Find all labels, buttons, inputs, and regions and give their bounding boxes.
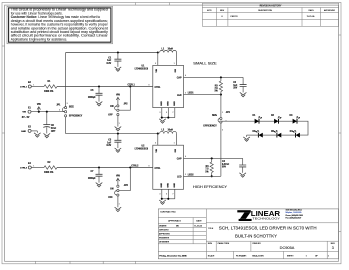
svg-text:ENGINEER: ENGINEER	[159, 238, 170, 240]
wire E1 to JP1	[31, 111, 64, 113]
capacitor C3 1uF 6.3V	[117, 134, 119, 141]
LED D5	[277, 133, 281, 138]
svg-text:EFFICIENCY: EFFICIENCY	[69, 116, 83, 118]
Linear Technology logo mark	[237, 210, 251, 212]
svg-text:CHECKED: CHECKED	[159, 229, 169, 231]
svg-text:CONTRACT NO.: CONTRACT NO.	[160, 211, 176, 214]
ground U1	[159, 119, 166, 123]
capacitor C2 1uF 25V	[242, 77, 244, 84]
ground JP2	[115, 127, 122, 131]
ground C7	[96, 183, 103, 187]
svg-text:VIN: VIN	[156, 149, 158, 153]
node JP2 common to CTRL1	[129, 85, 131, 87]
wire LED1 to JP4	[220, 95, 222, 118]
svg-text:GND: GND	[174, 182, 176, 187]
svg-text:LED: LED	[177, 95, 182, 97]
svg-text:PROTO: PROTO	[231, 16, 239, 18]
svg-text:LT3491ESC8: LT3491ESC8	[135, 147, 149, 150]
wire U2 CAP pin	[184, 157, 243, 159]
node R3 top	[220, 76, 222, 78]
ground C5	[96, 102, 103, 106]
svg-text:VIN: VIN	[37, 104, 41, 106]
resistor R4 7.5 1%	[211, 158, 213, 162]
node C1	[117, 51, 119, 53]
svg-text:1uF: 1uF	[233, 85, 238, 87]
svg-text:5: 5	[67, 103, 68, 105]
ground C2	[240, 92, 247, 96]
svg-text:VIN: VIN	[116, 94, 120, 96]
svg-text:3: 3	[222, 130, 223, 132]
capacitor C7 1000pF	[98, 168, 100, 175]
svg-text:CTRL1: CTRL1	[20, 87, 28, 89]
node L1	[157, 51, 159, 53]
svg-text:1: 1	[119, 204, 120, 206]
node C5/CTRL1	[98, 85, 100, 87]
svg-text:8: 8	[149, 84, 150, 86]
svg-text:CTRL2: CTRL2	[20, 168, 28, 170]
terminal E1 VIN	[28, 110, 31, 113]
node R4 bottom	[211, 175, 213, 177]
svg-text:DWG NO: DWG NO	[253, 243, 262, 245]
svg-text:2: 2	[185, 92, 186, 94]
wire L2 to U2 VIN pin	[157, 134, 159, 146]
wire U1 CAP pin	[184, 76, 244, 78]
wire JP3 common loop	[119, 168, 130, 191]
capacitor C5 1000pF	[98, 87, 100, 94]
wire D4-D5	[281, 134, 295, 136]
svg-text:DESIGNER: DESIGNER	[159, 242, 170, 244]
svg-text:GND: GND	[174, 101, 176, 106]
node JP3 common to CTRL2	[129, 166, 131, 168]
svg-text:CAGE CODE: CAGE CODE	[218, 242, 230, 245]
wire JP1 EFFICIENCY to rail2	[65, 117, 67, 134]
jumper JP2 ON/OFF	[117, 105, 119, 107]
svg-text:LED2: LED2	[188, 174, 195, 176]
inductor L1 10uH	[160, 50, 177, 52]
svg-text:SHEET: SHEET	[287, 256, 294, 258]
svg-text:CTRL1: CTRL1	[128, 84, 136, 86]
svg-text:10uH: 10uH	[168, 48, 174, 50]
U1 GND pins to ground	[161, 108, 163, 118]
op IC U1 LT3491ESC8 box	[153, 65, 184, 107]
LED D6	[258, 133, 262, 138]
svg-text:SW: SW	[175, 149, 177, 152]
svg-text:GND: GND	[167, 101, 169, 106]
svg-text:Applications Engineering for a: Applications Engineering for assistance.	[11, 37, 68, 41]
ground E2	[34, 133, 41, 137]
svg-text:EFFICIENCY: EFFICIENCY	[203, 125, 217, 127]
wire JP3 OFF to ground	[117, 196, 119, 207]
inductor L2 10uH	[160, 131, 177, 133]
svg-text:DATE: DATE	[196, 220, 202, 223]
jumper JP1 VIN select	[65, 107, 67, 109]
svg-text:1uF: 1uF	[107, 142, 112, 144]
svg-text:3: 3	[160, 112, 161, 114]
capacitor C1 1uF 6.3V	[117, 53, 119, 60]
node C3	[117, 133, 119, 135]
svg-text:1%: 1%	[205, 171, 208, 173]
svg-text:1: 1	[33, 84, 34, 86]
svg-text:SW: SW	[175, 69, 177, 72]
svg-text:0.47uF: 0.47uF	[222, 163, 230, 166]
svg-text:TECHNOLOGY: TECHNOLOGY	[252, 217, 280, 221]
svg-text:11-21-05: 11-21-05	[194, 225, 202, 227]
node C6	[46, 111, 48, 113]
svg-text:1%: 1%	[214, 91, 217, 93]
LED D1	[255, 119, 259, 124]
svg-text:DRAWN: DRAWN	[159, 224, 167, 227]
wire E3 to R1	[31, 86, 44, 88]
svg-text:100K 1%: 100K 1%	[44, 172, 53, 174]
svg-text:1uF: 1uF	[107, 60, 112, 62]
terminal E3 CTRL1	[28, 85, 31, 88]
svg-text:6: 6	[166, 112, 167, 114]
wire U1 LED pin	[184, 94, 221, 96]
resistor R1	[44, 85, 57, 89]
op IC U2 LT3491ESC8 box	[153, 145, 184, 189]
svg-text:DATE: DATE	[309, 9, 315, 12]
svg-text:CTRL2: CTRL2	[131, 165, 139, 167]
svg-text:3: 3	[332, 246, 334, 250]
node R4 top	[211, 157, 213, 159]
wire VIN rail2	[66, 133, 158, 135]
svg-text:OPT: OPT	[51, 131, 56, 133]
svg-text:CAP: CAP	[177, 77, 182, 80]
jumper JP3 ON/OFF	[117, 185, 119, 187]
svg-text:1000pF: 1000pF	[88, 178, 96, 180]
svg-text:50V: 50V	[222, 167, 227, 169]
wire D5-D6	[263, 134, 277, 136]
wire D3 to right corner	[297, 121, 308, 135]
svg-text:APPROVED: APPROVED	[324, 9, 336, 12]
svg-text:3: 3	[160, 193, 161, 195]
ground C1	[115, 67, 122, 71]
svg-text:1: 1	[174, 143, 175, 145]
node C7/CTRL2	[98, 166, 100, 168]
svg-text:APPROVED: APPROVED	[159, 233, 170, 236]
wire JP2 common loop	[119, 87, 130, 111]
svg-text:CTRL: CTRL	[155, 87, 162, 89]
svg-text:DESCRIPTION: DESCRIPTION	[258, 10, 272, 12]
wire E4 to R2	[31, 167, 44, 169]
svg-text:TITLE: TITLE	[208, 228, 214, 230]
svg-text:11-21-05: 11-21-05	[307, 16, 316, 18]
ground C4	[239, 173, 246, 177]
svg-text:6: 6	[166, 193, 167, 195]
wire U2 LED pin	[184, 175, 221, 177]
ground LED string	[243, 137, 250, 141]
wire JP2 OFF to ground	[117, 116, 119, 127]
wire JP4 EFFICIENCY to LED2	[220, 123, 222, 176]
node R3 bottom	[220, 94, 222, 96]
terminal E4 CTRL2	[28, 166, 31, 169]
svg-text:47uF: 47uF	[51, 127, 57, 130]
svg-text:7: 7	[173, 193, 174, 195]
wire E2 to ground	[31, 130, 37, 132]
svg-text:7: 7	[173, 112, 174, 114]
svg-text:1630 McCarthy Blvd.: 1630 McCarthy Blvd.	[286, 209, 303, 212]
ground C6	[44, 133, 51, 137]
svg-text:1: 1	[174, 63, 175, 65]
ground C3	[115, 148, 122, 152]
svg-text:OFF: OFF	[108, 115, 113, 117]
svg-text:OFF: OFF	[108, 197, 113, 199]
wire L1 to U1 VIN pin	[157, 53, 159, 66]
svg-text:SIZE: SIZE	[208, 243, 213, 245]
svg-text:LT3491ESC8: LT3491ESC8	[135, 67, 149, 70]
LED D2	[274, 119, 278, 124]
svg-text:ECO: ECO	[207, 10, 212, 12]
wire D2-D3	[279, 120, 293, 122]
svg-text:8: 8	[149, 165, 150, 167]
svg-text:GND: GND	[161, 182, 163, 187]
svg-text:SCH, LT3491ESC8, LED DRIVER I: SCH, LT3491ESC8, LED DRIVER IN SC70 WITH	[219, 226, 317, 231]
svg-text:VIN: VIN	[22, 112, 26, 114]
svg-text:GND: GND	[167, 182, 169, 187]
svg-text:ON: ON	[110, 188, 114, 190]
svg-text:REV: REV	[220, 10, 225, 12]
ground JP3	[115, 207, 122, 211]
svg-text:Friday, December 16, 2005: Friday, December 16, 2005	[159, 255, 187, 257]
svg-text:DC905A: DC905A	[280, 245, 295, 250]
wire R1 to U1 CTRL	[57, 86, 153, 88]
U2 GND pins to ground	[161, 189, 163, 199]
wire R2 to U2 CTRL	[57, 167, 153, 169]
VIN net arrow	[38, 111, 40, 113]
svg-text:REVISION HISTORY: REVISION HISTORY	[260, 6, 282, 8]
wire JP1 SIZE to rail1	[65, 53, 67, 107]
revision history table grid	[202, 3, 338, 26]
capacitor C4 0.47uF 50V	[242, 158, 244, 165]
svg-text:FILENAME:: FILENAME:	[236, 255, 247, 258]
ground U2	[159, 200, 166, 204]
capacitor C6 47uF OPT	[46, 112, 48, 125]
svg-text:VIN: VIN	[116, 176, 120, 178]
resistor R2	[44, 166, 57, 170]
wire L2 to U2 SW pin	[176, 134, 178, 146]
disclaimer note box	[7, 6, 113, 44]
svg-text:LED: LED	[177, 177, 182, 179]
svg-text:5: 5	[155, 143, 156, 145]
svg-text:6.3V: 6.3V	[107, 63, 112, 65]
svg-text:ON: ON	[110, 106, 114, 108]
svg-text:1000pF: 1000pF	[88, 97, 96, 99]
wire JP4 to LED string	[222, 120, 255, 122]
svg-text:Fax: (408)434-0507: Fax: (408)434-0507	[286, 217, 302, 219]
svg-text:3V - 5V: 3V - 5V	[22, 117, 30, 119]
svg-text:HIGH EFFICIENCY: HIGH EFFICIENCY	[193, 185, 228, 189]
svg-text:VIN: VIN	[156, 69, 158, 73]
terminal E2 GND	[28, 129, 31, 132]
node L2	[157, 133, 159, 135]
svg-text:CTRL: CTRL	[155, 168, 162, 170]
svg-text:BUILT-IN SCHOTTKY: BUILT-IN SCHOTTKY	[235, 234, 277, 239]
LED D3	[293, 119, 297, 124]
svg-text:SIZE: SIZE	[212, 115, 218, 117]
title block grid	[158, 209, 338, 259]
svg-text:Milpitas, CA 95035: Milpitas, CA 95035	[286, 211, 302, 214]
svg-text:6.3V: 6.3V	[107, 145, 112, 147]
svg-text:1: 1	[33, 165, 34, 167]
svg-text:SMALL SIZE: SMALL SIZE	[193, 62, 217, 66]
jumper JP4 LED select	[220, 117, 222, 119]
wire VIN rail1	[66, 52, 158, 54]
wire L1 to U1 SW pin	[176, 53, 178, 66]
svg-text:2: 2	[59, 110, 60, 112]
svg-text:GND: GND	[21, 131, 26, 133]
svg-text:905A-3.DSN: 905A-3.DSN	[252, 255, 264, 258]
svg-text:CAP: CAP	[177, 158, 182, 161]
svg-text:25V: 25V	[233, 88, 238, 90]
svg-text:5: 5	[155, 63, 156, 65]
svg-text:1: 1	[119, 123, 120, 125]
resistor R3 7.5 1%	[220, 77, 222, 81]
wire D1-D2	[259, 120, 274, 122]
LED D4	[296, 133, 300, 138]
svg-text:SIZE: SIZE	[69, 107, 75, 109]
svg-text:GND: GND	[161, 101, 163, 106]
svg-text:10uH: 10uH	[168, 130, 174, 132]
svg-text:LED1: LED1	[188, 93, 195, 95]
svg-text:APPROVALS: APPROVALS	[168, 220, 181, 223]
svg-text:2: 2	[185, 174, 186, 176]
svg-text:SCALE: SCALE	[208, 255, 215, 258]
svg-text:1: 1	[222, 112, 223, 114]
wire D6 to ground	[247, 134, 259, 136]
svg-text:100K 1%: 100K 1%	[44, 91, 53, 93]
frame zone tick marks	[35, 261, 37, 264]
